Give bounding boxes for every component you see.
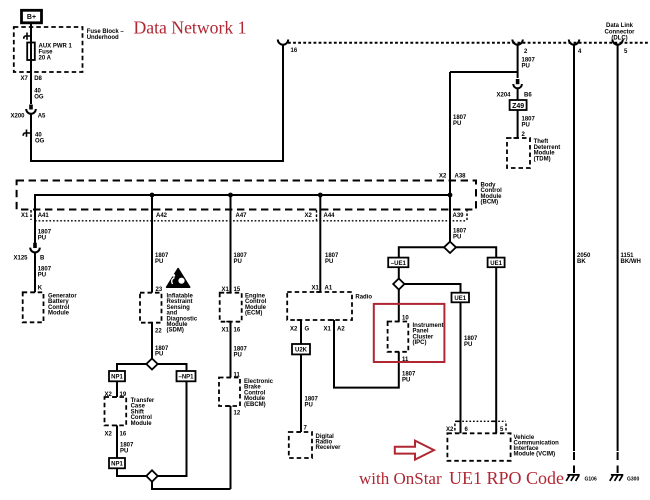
svg-text:15: 15 [234,287,241,293]
svg-text:PU: PU [325,259,333,265]
svg-text:OG: OG [34,95,44,101]
svg-text:PU: PU [522,122,530,128]
svg-text:X1: X1 [222,328,230,334]
svg-text:6: 6 [465,427,469,433]
svg-text:with OnStar: with OnStar [359,469,442,488]
svg-text:16: 16 [234,328,241,334]
svg-text:UE1: UE1 [454,296,466,302]
svg-text:B6: B6 [524,93,532,99]
svg-text:PU: PU [234,352,242,358]
svg-text:PU: PU [402,377,410,383]
svg-text:X2: X2 [105,392,113,398]
svg-text:Connector: Connector [605,29,636,35]
svg-text:7: 7 [304,426,308,432]
svg-text:X2: X2 [446,427,454,433]
svg-text:(BCM): (BCM) [481,200,499,206]
svg-text:5: 5 [624,49,628,55]
svg-text:UE1 RPO Code: UE1 RPO Code [449,468,564,488]
svg-text:12: 12 [234,411,241,417]
svg-text:Module: Module [131,421,153,427]
svg-text:PU: PU [522,63,530,69]
svg-text:PU: PU [155,352,163,358]
svg-text:G: G [305,327,310,333]
svg-text:PU: PU [155,259,163,265]
svg-text:–UE1: –UE1 [391,261,407,267]
svg-text:X1: X1 [222,287,230,293]
svg-text:X125: X125 [14,256,29,262]
svg-text:X200: X200 [11,114,26,120]
svg-text:Receiver: Receiver [316,445,342,451]
svg-text:UE1: UE1 [490,261,502,267]
svg-text:K: K [38,286,43,292]
svg-text:19: 19 [120,392,127,398]
svg-text:PU: PU [38,236,46,242]
svg-text:X1: X1 [324,327,332,333]
svg-text:B: B [40,256,45,262]
svg-text:(TDM): (TDM) [534,156,551,162]
svg-text:A42: A42 [156,213,168,219]
svg-text:X1: X1 [21,213,29,219]
svg-text:5: 5 [500,427,504,433]
svg-text:A38: A38 [455,174,467,180]
svg-text:A5: A5 [38,114,46,120]
svg-text:11: 11 [234,373,241,379]
svg-text:X2: X2 [105,432,113,438]
svg-text:16: 16 [291,48,298,54]
svg-text:A47: A47 [236,213,248,219]
svg-text:G300: G300 [627,477,639,483]
svg-text:Radio: Radio [355,295,372,301]
svg-text:Z49: Z49 [512,103,524,110]
svg-text:PU: PU [38,273,46,279]
svg-text:PU: PU [453,235,461,241]
svg-text:23: 23 [156,287,163,293]
svg-text:PU: PU [234,259,242,265]
svg-text:BK: BK [577,259,586,265]
svg-text:OG: OG [35,139,45,145]
svg-text:A44: A44 [324,213,336,219]
svg-text:Underhood: Underhood [87,35,119,41]
svg-text:BK/WH: BK/WH [621,259,641,265]
svg-text:11: 11 [402,357,409,363]
svg-text:(IPC): (IPC) [413,340,427,346]
svg-text:X2: X2 [290,327,298,333]
svg-text:Data Link: Data Link [606,23,634,29]
svg-text:A39: A39 [453,213,465,219]
svg-text:PU: PU [120,448,128,454]
svg-text:(EBCM): (EBCM) [244,402,266,408]
svg-text:PU: PU [453,121,461,127]
svg-text:A1: A1 [325,286,333,292]
svg-text:X2: X2 [305,213,313,219]
svg-text:20 A: 20 A [39,55,52,61]
svg-text:10: 10 [402,316,409,322]
svg-text:X2: X2 [439,174,447,180]
svg-text:U2K: U2K [295,348,308,354]
svg-text:(ECM): (ECM) [245,311,262,317]
svg-text:A2: A2 [337,327,345,333]
svg-text:D8: D8 [34,76,42,82]
svg-text:16: 16 [120,432,127,438]
svg-text:Data Network 1: Data Network 1 [134,17,247,37]
svg-text:NP1: NP1 [111,375,123,381]
svg-text:A41: A41 [38,213,50,219]
svg-text:22: 22 [155,329,162,335]
svg-text:X7: X7 [21,76,29,82]
svg-text:(DLC): (DLC) [611,36,627,42]
svg-text:NP1: NP1 [111,462,123,468]
svg-text:X204: X204 [497,93,512,99]
svg-text:Module (VCIM): Module (VCIM) [514,451,556,457]
svg-text:PU: PU [464,342,472,348]
svg-text:B+: B+ [27,14,36,21]
svg-text:PU: PU [305,402,313,408]
svg-text:Module: Module [48,311,70,317]
svg-text:X1: X1 [312,286,320,292]
svg-text:(SDM): (SDM) [167,328,184,334]
svg-text:4: 4 [578,49,582,55]
svg-text:G106: G106 [585,477,597,483]
svg-text:2: 2 [524,49,528,55]
svg-text:–NP1: –NP1 [178,375,194,381]
